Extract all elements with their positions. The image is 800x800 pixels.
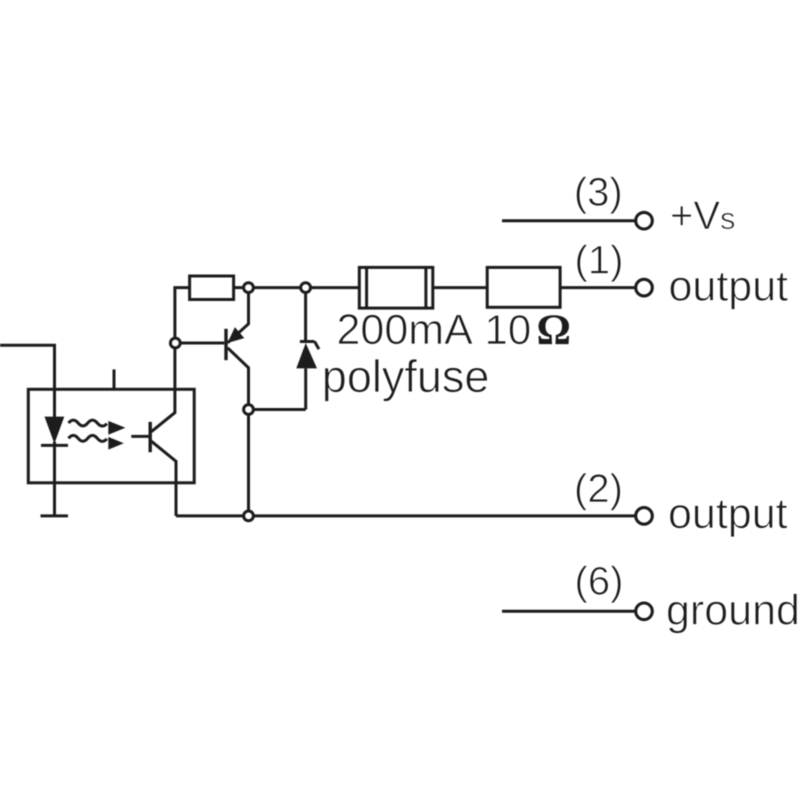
svg-text:Ω: Ω bbox=[537, 307, 571, 354]
wire terminal 6 bbox=[502, 610, 635, 613]
zener diode Z1 bbox=[296, 288, 319, 410]
node E (Q2 base / collector of Q1 junction) bbox=[170, 338, 180, 348]
ground bbox=[41, 514, 69, 517]
wire polyfuse to resistor R2 bbox=[433, 286, 487, 289]
wire LED input (left external lead) bbox=[0, 345, 55, 417]
terminal 2 circle bbox=[636, 508, 653, 525]
node B (top rail / zener junction) bbox=[301, 283, 311, 293]
svg-text:ground: ground bbox=[666, 587, 800, 635]
wire node D down to bottom rail bbox=[247, 410, 250, 516]
LED D1 (emitter diode inside optocoupler) bbox=[41, 417, 68, 516]
node C (bottom rail junction) bbox=[244, 511, 254, 521]
svg-text:output: output bbox=[669, 262, 789, 310]
wire output 2 rail (bottom horizontal) bbox=[176, 514, 635, 517]
phototransistor Q1 emitter wire down bbox=[151, 441, 176, 516]
light arrow 1 (upper wavy arrow) bbox=[69, 420, 126, 435]
svg-text:output: output bbox=[668, 490, 788, 538]
wire R2 to terminal 1 bbox=[560, 286, 635, 289]
light arrow 2 (lower wavy arrow) bbox=[69, 435, 124, 449]
phototransistor Q1 collector wire up to resistor R1 bbox=[151, 288, 189, 432]
node A (top rail / Q2 emitter junction) bbox=[244, 283, 254, 293]
svg-text:(2): (2) bbox=[574, 467, 623, 511]
phototransistor Q1 base lead bbox=[131, 435, 150, 438]
wire zener anode to node D bbox=[249, 408, 306, 411]
svg-text:+Vs: +Vs bbox=[670, 194, 736, 238]
phototransistor Q1 base bar bbox=[148, 422, 151, 452]
optocoupler U1 package box bbox=[28, 389, 194, 483]
wire terminal 3 bbox=[502, 219, 635, 222]
polyfuse F1 bbox=[359, 267, 433, 308]
terminal 1 circle bbox=[636, 279, 653, 296]
svg-text:(3): (3) bbox=[574, 170, 623, 214]
terminal 3 circle bbox=[636, 212, 653, 229]
resistor R2 (10 ohm) bbox=[487, 267, 560, 307]
svg-text:polyfuse: polyfuse bbox=[322, 351, 490, 402]
transistor Q2 (PNP) base bar bbox=[224, 329, 227, 360]
svg-text:(1): (1) bbox=[575, 239, 624, 283]
transistor Q2 emitter arrow bbox=[228, 327, 245, 343]
terminal 6 circle bbox=[636, 603, 653, 620]
svg-text:200mA: 200mA bbox=[337, 306, 474, 354]
transistor Q2 collector (down to node D) bbox=[228, 348, 249, 410]
transistor Q2 emitter (up to node A) bbox=[228, 288, 249, 343]
svg-text:(6): (6) bbox=[575, 559, 624, 603]
svg-text:10: 10 bbox=[485, 306, 532, 353]
resistor R1 bbox=[190, 276, 234, 300]
wire PNP base from node bbox=[175, 342, 224, 345]
pin tick on top of optocoupler bbox=[113, 369, 116, 389]
wire top rail to polyfuse bbox=[234, 286, 360, 289]
node D (Q2 collector / zener anode junction) bbox=[244, 405, 254, 415]
